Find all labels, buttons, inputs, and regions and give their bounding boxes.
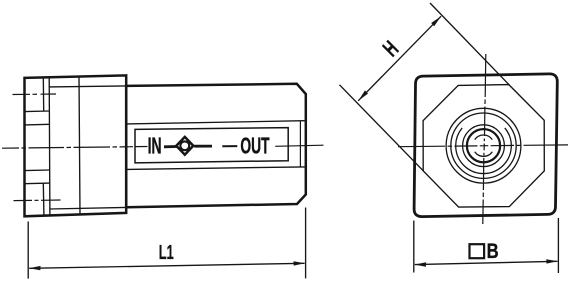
L1 dimension line (29, 263, 304, 268)
H extension line (bottom-left chamfer extended) (340, 85, 424, 171)
body octagon flat edge line (lower) (126, 167, 304, 170)
check valve symbol: ball circle (180, 141, 189, 150)
svg-text:OUT: OUT (240, 133, 269, 159)
label plate (135, 128, 288, 163)
left mounting block outline (25, 75, 127, 216)
centerline stub inside plate before IN (136, 146, 148, 148)
B dimension line (415, 261, 558, 264)
body silhouette line through block (top) (49, 86, 126, 87)
body silhouette line through block (bottom) (50, 207, 127, 209)
block step line at y170 (25, 169, 50, 172)
L1 left extension line (27, 222, 29, 279)
bore circle r20.9 (463, 125, 505, 167)
check valve symbol: inlet line (164, 145, 177, 148)
valve body outline (126, 84, 306, 208)
circle r37.4 (446, 108, 521, 183)
vertical centerline of end view (483, 54, 486, 224)
block step line at y111 (25, 110, 50, 113)
H dimension line (358, 16, 441, 101)
H upper arrowhead (431, 16, 441, 26)
thread arc r27.8 (gap at top) (456, 128, 512, 174)
block internal vertical V1 upper (42, 77, 44, 111)
block internal vertical V2 (48, 77, 51, 216)
main axis centerline (left view) (2, 145, 324, 148)
B left extension line (413, 221, 415, 273)
block step line at y124 (25, 123, 50, 126)
svg-text:B: B (487, 240, 499, 263)
centerline dash before OUT (222, 145, 237, 147)
L1 right arrowhead (294, 261, 305, 265)
svg-text:IN: IN (148, 132, 162, 158)
body octagon flat edge line (upper) (126, 121, 304, 124)
body chamfer edge vertical at right end (299, 121, 301, 167)
B left arrowhead (415, 262, 427, 266)
end view square face (414, 74, 557, 217)
B right extension line (557, 218, 559, 273)
H extension line (top-right chamfer extended) (430, 3, 510, 85)
square symbol of B label (470, 244, 485, 258)
bore arc r10.7 top (475, 135, 493, 140)
block internal vertical V1 lower (42, 183, 45, 215)
lower mounting hole axis (dash-dot) (14, 199, 61, 202)
block internal vertical V3 (79, 76, 80, 214)
block step line at y183 (25, 182, 50, 185)
bore arc r10.7 bottom (475, 152, 493, 157)
L1 right extension line (305, 208, 307, 279)
bore circle r16.6 (thick) (467, 129, 500, 162)
L1 left arrowhead (29, 266, 41, 270)
B right arrowhead (546, 259, 557, 263)
check valve symbol: diamond (176, 137, 193, 155)
upper mounting hole axis (dash-dot) (13, 93, 57, 96)
end view octagon (423, 85, 544, 208)
check valve symbol: outlet line (194, 145, 212, 148)
H lower arrowhead (358, 90, 368, 100)
horizontal centerline of end view (398, 145, 568, 147)
circle r32.7 (451, 113, 516, 178)
svg-text:L1: L1 (159, 242, 174, 264)
